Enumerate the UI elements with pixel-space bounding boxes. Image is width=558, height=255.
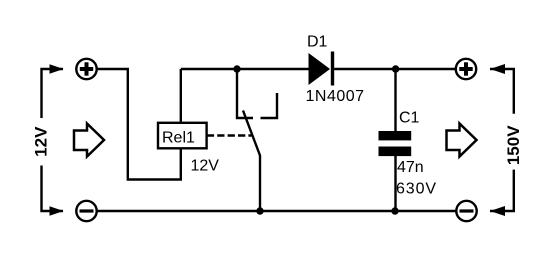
- svg-text:12V: 12V: [191, 158, 220, 175]
- terminal T1 plus circle: [76, 59, 96, 79]
- switch S1 moving contact terminal: [237, 69, 253, 118]
- svg-text:Rel1: Rel1: [162, 129, 195, 146]
- node: junction dot bottom rail / capacitor: [391, 207, 398, 214]
- node: junction dot top rail / capacitor: [392, 65, 399, 72]
- wire: bottom rail: [98, 210, 456, 212]
- wire: left bracket vertical lower segment: [42, 166, 64, 212]
- switch S1 fixed contact terminal: [261, 93, 278, 118]
- capacitor C1: [379, 69, 412, 211]
- block arrow right (energy flow): [447, 124, 477, 157]
- svg-text:1N4007: 1N4007: [306, 88, 365, 105]
- svg-text:630V: 630V: [396, 181, 437, 198]
- node: junction dot bottom rail / switch: [256, 207, 263, 214]
- relay coil box Rel1: [158, 69, 207, 148]
- arrowhead: left bracket top (points right): [50, 64, 64, 73]
- terminal T3 plus circle (output): [456, 59, 476, 79]
- arrowhead: right bracket bottom (points left): [490, 206, 505, 216]
- wire: top rail from relay pin to diode anode: [181, 68, 309, 70]
- switch S1 blade: [243, 111, 260, 212]
- arrowhead: right bracket top (points left): [490, 64, 505, 74]
- terminal T4 minus circle (output): [456, 201, 476, 221]
- node: junction dot top rail / switch branch: [233, 65, 240, 72]
- svg-text:12V: 12V: [32, 126, 51, 157]
- wire: top rail diode cathode to T3: [334, 68, 456, 70]
- wire: from T1 down and to relay coil bottom pin: [98, 69, 181, 180]
- svg-text:47n: 47n: [397, 159, 424, 176]
- svg-text:D1: D1: [307, 33, 328, 50]
- svg-text:C1: C1: [399, 110, 420, 127]
- terminal T2 minus circle: [76, 201, 96, 221]
- wire: left bracket vertical upper segment: [42, 69, 64, 118]
- wire: right bracket vertical lower segment: [490, 170, 514, 211]
- block arrow left (energy flow): [74, 124, 104, 157]
- wire: right bracket vertical upper segment: [490, 69, 514, 114]
- svg-text:150V: 150V: [504, 125, 523, 165]
- diode D1: [309, 52, 335, 86]
- arrowhead: left bracket bottom (points right): [50, 206, 64, 215]
- dashed link relay to switch: [207, 134, 252, 136]
